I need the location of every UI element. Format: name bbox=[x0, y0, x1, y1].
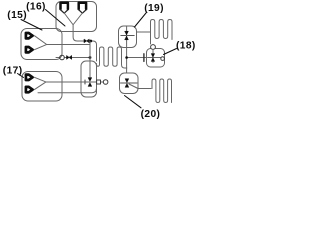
label leader 19 bbox=[135, 13, 147, 27]
funnel A of station 15 bbox=[26, 33, 33, 38]
svg-text:(16): (16) bbox=[26, 1, 46, 12]
serpentine coil (top right) bbox=[151, 20, 173, 45]
label leader 20 bbox=[125, 96, 142, 108]
serpentine reactor coil (middle) bbox=[97, 47, 127, 68]
enclosure capsule of station 15 bbox=[21, 29, 62, 60]
funnel B of station 15 bbox=[26, 47, 33, 52]
label leader 15 bbox=[21, 20, 42, 31]
pump valve bowtie in lower-left box bbox=[88, 78, 92, 87]
wire: purge line with gauge from station 15 bbox=[56, 57, 90, 59]
enclosure capsule of station 17 bbox=[22, 72, 62, 102]
valve box (lower-left pump box) bbox=[81, 61, 97, 97]
motor circle on box 18 bbox=[151, 45, 156, 50]
svg-text:(19): (19) bbox=[144, 3, 164, 14]
svg-text:(18): (18) bbox=[176, 40, 196, 51]
pump bowtie in box 18 bbox=[151, 54, 154, 62]
svg-text:(17): (17) bbox=[3, 66, 23, 77]
svg-text:(20): (20) bbox=[141, 109, 161, 120]
gauge circle G1 bbox=[60, 55, 65, 60]
serpentine coil (bottom right) bbox=[152, 79, 172, 103]
wire: box 19 outlet to right coil bbox=[137, 31, 151, 33]
pump bowtie in box 20 bbox=[125, 79, 129, 88]
funnel B of station 17 bbox=[26, 87, 33, 92]
funnel A of station 17 bbox=[26, 75, 33, 80]
label leader 16 bbox=[46, 10, 66, 27]
outlet circle of box 18 bbox=[161, 57, 165, 61]
label leader 18 bbox=[164, 49, 177, 55]
enclosure capsule of station 16 bbox=[56, 2, 97, 32]
crossbar in box 20 bbox=[121, 82, 138, 84]
pump box 19 bbox=[119, 26, 137, 48]
wire: vertical manifold down to valve box bbox=[89, 42, 91, 78]
valve V2 on purge line bbox=[67, 56, 72, 60]
wire: lower header through box to gauge chain bbox=[85, 81, 104, 83]
port square on box outlet bbox=[97, 80, 101, 84]
wire: stem through box 19 down to tee bbox=[126, 26, 128, 73]
wire: V-merge of station 17 outputs to lower header bbox=[34, 77, 84, 89]
funnel B of station 16 bbox=[79, 3, 86, 9]
pump bowtie in box 19 bbox=[125, 31, 129, 40]
pump box 20 bbox=[120, 73, 139, 94]
stem in box 18 bbox=[148, 49, 162, 62]
pump box 18 bbox=[147, 49, 165, 68]
junction node at tee bbox=[125, 56, 128, 59]
valve V1 on line 16 bbox=[84, 39, 89, 43]
crossbar in box 19 bbox=[121, 35, 134, 37]
flange bar at pump 18 inlet bbox=[143, 54, 145, 62]
label leader 17 bbox=[18, 74, 24, 78]
gauge circle G2 bbox=[103, 80, 108, 85]
wire: box 20 outlet to bottom coil bbox=[129, 84, 151, 89]
wire: station 17 lower return line bbox=[38, 89, 96, 93]
wire: line 16 to downcomer bbox=[89, 41, 97, 61]
wire: tee line to pump 18 bbox=[127, 57, 147, 59]
port tick on lower header bbox=[84, 80, 86, 84]
svg-text:(15): (15) bbox=[7, 10, 27, 21]
wire: V-merge from station 16 funnels down to pipe bbox=[64, 13, 84, 41]
junction node on manifold bbox=[89, 56, 92, 59]
wire: V-merge of station 15 outputs to header bbox=[34, 36, 89, 50]
junction node on line 16 bbox=[89, 40, 92, 43]
funnel A of station 16 bbox=[61, 3, 68, 9]
